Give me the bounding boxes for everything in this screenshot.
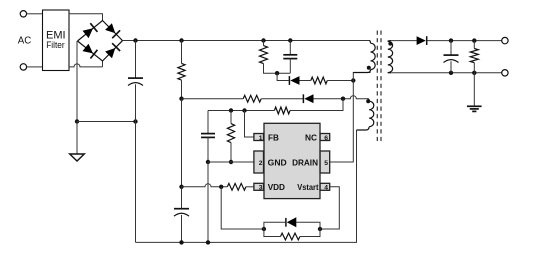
svg-text:AC: AC: [18, 35, 32, 47]
chassis ground symbol: [70, 154, 85, 161]
transformer secondary winding: [388, 41, 393, 73]
svg-text:NC: NC: [305, 133, 317, 142]
AC input terminal top: [20, 11, 26, 17]
wire secondary bottom row: [391, 72, 501, 74]
wire R9 to bottom row: [473, 63, 475, 73]
wire main DC bus: [123, 40, 370, 42]
wire GND rail down (hop row below): [207, 162, 209, 242]
capacitor C2 (VDD): [174, 209, 189, 216]
node snubber join: [275, 71, 279, 75]
wire VDD-rect node to R4: [182, 98, 244, 100]
wire bus to C3 snubber: [289, 41, 291, 55]
node negative rail: [75, 119, 79, 123]
wire R6 to GND row: [230, 143, 232, 162]
aux rectifier diode D6: [303, 94, 313, 103]
wire terminal-bottom to EMI filter: [27, 66, 43, 68]
wire R6 top lead: [230, 111, 232, 124]
node R6 gnd: [229, 160, 233, 164]
wire C1 rail to ground bus: [135, 122, 137, 243]
wire to R9: [473, 41, 475, 49]
earth ground symbol: [467, 106, 482, 111]
resistor R8 (Vstart): [281, 233, 300, 240]
wire C1 to negative node: [135, 84, 137, 121]
resistor R2 (snubber): [260, 46, 268, 64]
pin 1 (FB): [254, 134, 264, 142]
wire FB row: [208, 110, 274, 112]
wire D5 to R3: [300, 80, 311, 82]
wire pin 4 to Vstart block: [320, 187, 339, 229]
node FB pin tap: [242, 108, 246, 112]
svg-text:3: 3: [259, 185, 263, 192]
pin 6 (NC): [320, 134, 330, 142]
wire drain rail to primary bottom: [353, 73, 370, 81]
svg-text:4: 4: [324, 185, 328, 192]
svg-text:VDD: VDD: [268, 183, 285, 192]
wire C3 to snubber join: [289, 59, 291, 74]
bridge rectifier outline: [78, 21, 123, 62]
svg-text:DRAIN: DRAIN: [292, 158, 318, 167]
resistor R7 (VDD series): [227, 183, 246, 190]
wire FB tap to pin 1: [245, 111, 254, 138]
transformer primary winding: [353, 41, 375, 73]
bridge diode D2 (top to right): [105, 23, 120, 38]
wire bus to R1: [181, 41, 183, 64]
bridge diode D4 (bottom to right): [105, 43, 120, 58]
resistor R5 (FB upper): [274, 107, 290, 114]
node ground bus gnd rail: [206, 240, 210, 244]
wire D7 to block right: [296, 222, 320, 229]
transformer core: [377, 31, 381, 142]
wire snubber join to clamp diode: [277, 73, 289, 80]
wire R1 to VDD-rect node: [181, 80, 183, 99]
node output res top: [472, 38, 476, 42]
node snubber capacitor top: [288, 38, 292, 42]
output diode D8: [417, 36, 427, 45]
controller IC U1 body: [264, 123, 320, 198]
wire C4 to GND node: [207, 137, 209, 162]
node VDD row left: [179, 185, 183, 189]
AC input terminal bottom: [20, 64, 26, 70]
node ground bus R1 rail: [179, 240, 183, 244]
wire R4 to D6: [261, 98, 303, 100]
node Vstart block right: [318, 227, 322, 231]
wire FB-link vertical: [290, 99, 343, 111]
resistor R9 (output load): [470, 49, 478, 63]
chassis ground stem: [76, 122, 78, 155]
bridge diode D3 (left to bottom): [83, 44, 98, 59]
node output res bottom: [472, 71, 476, 75]
svg-text:FB: FB: [268, 133, 279, 142]
wire GND row to pin 2: [208, 161, 254, 163]
wire VDD row (hop over gnd rail): [182, 184, 228, 187]
node GND rail: [206, 160, 210, 164]
wire negative link row: [77, 121, 136, 123]
EMI filter block: [43, 10, 70, 71]
wire to C5: [450, 41, 452, 56]
wire block resistor branch: [264, 229, 281, 237]
node snubber resistor top: [261, 38, 265, 42]
capacitor C4 (FB): [201, 134, 215, 138]
primary polarity dot: [367, 66, 371, 70]
node startup resistor top: [179, 38, 183, 42]
svg-text:Filter: Filter: [46, 40, 65, 50]
wire D6 to FB-link node (hop over drain): [314, 96, 369, 99]
ground bus: [136, 130, 357, 242]
wire secondary top to D8: [391, 40, 416, 42]
resistor R4 (VDD series): [243, 95, 261, 102]
wire FB row corner to C4: [207, 111, 209, 134]
aux polarity dot: [366, 99, 370, 103]
wire C2 to ground bus: [181, 215, 183, 243]
svg-text:6: 6: [324, 135, 328, 142]
output terminal bottom: [502, 70, 508, 76]
wire terminal-top to EMI filter: [27, 13, 43, 15]
pin 3 (VDD): [254, 183, 264, 191]
svg-text:GND: GND: [268, 158, 287, 167]
wire block diode branch: [264, 222, 285, 229]
node Vstart block left: [262, 227, 266, 231]
node bulk-cap negative: [133, 119, 137, 123]
transformer aux winding: [357, 99, 374, 130]
wire R7 to pin 3: [246, 186, 254, 188]
bridge diode D1 (left to top): [83, 23, 98, 38]
label AC: [18, 35, 32, 47]
resistor R1 (startup): [178, 63, 185, 80]
wire EMI filter to bridge AC bottom (hop over neg rail): [69, 61, 103, 67]
node aux rect to FB divider: [341, 97, 345, 101]
node output cap top: [449, 38, 453, 42]
wire bus to R2 snubber: [263, 41, 265, 46]
capacitor C5 (output): [444, 55, 459, 62]
wire bridge negative to node: [76, 41, 78, 122]
svg-text:Vstart: Vstart: [297, 183, 319, 192]
clamp diode D5: [289, 76, 299, 85]
output terminal top: [502, 37, 508, 43]
wire pin 5 to drain rail: [330, 81, 354, 163]
node clamp to drain: [351, 78, 355, 82]
node VDD rectifier row: [179, 97, 183, 101]
resistor R6 (FB lower): [227, 124, 234, 143]
secondary polarity dot: [388, 42, 392, 46]
wire R3 to drain node: [327, 80, 353, 82]
resistor R3 (clamp): [311, 77, 328, 84]
pin 4 (Vstart): [320, 183, 330, 191]
capacitor C1 (bulk): [128, 78, 143, 85]
svg-text:2: 2: [259, 160, 263, 167]
node Vstart branch: [219, 185, 223, 189]
wire VDD row to C2: [181, 187, 183, 209]
wire rail to VDD row: [181, 99, 183, 187]
wire D8 to output node: [427, 40, 501, 42]
wire C5 to bottom row: [450, 61, 452, 73]
pin 5 (DRAIN): [320, 151, 330, 173]
svg-text:5: 5: [324, 160, 328, 167]
wire bus to C1: [135, 41, 137, 79]
wire R8 to block right: [300, 229, 320, 237]
wire Vstart row to block: [221, 187, 264, 229]
block diode D7: [286, 217, 296, 227]
wire EMI filter to bridge AC top: [69, 14, 103, 21]
node bulk cap top: [133, 38, 137, 42]
node output cap bottom: [449, 71, 453, 75]
pin 2 (GND): [254, 151, 264, 173]
wire R2 to snubber join: [264, 64, 291, 74]
capacitor C3 (snubber): [283, 55, 297, 59]
node FB resistor top: [229, 108, 233, 112]
wire to earth ground: [473, 73, 475, 106]
svg-text:1: 1: [259, 135, 263, 142]
